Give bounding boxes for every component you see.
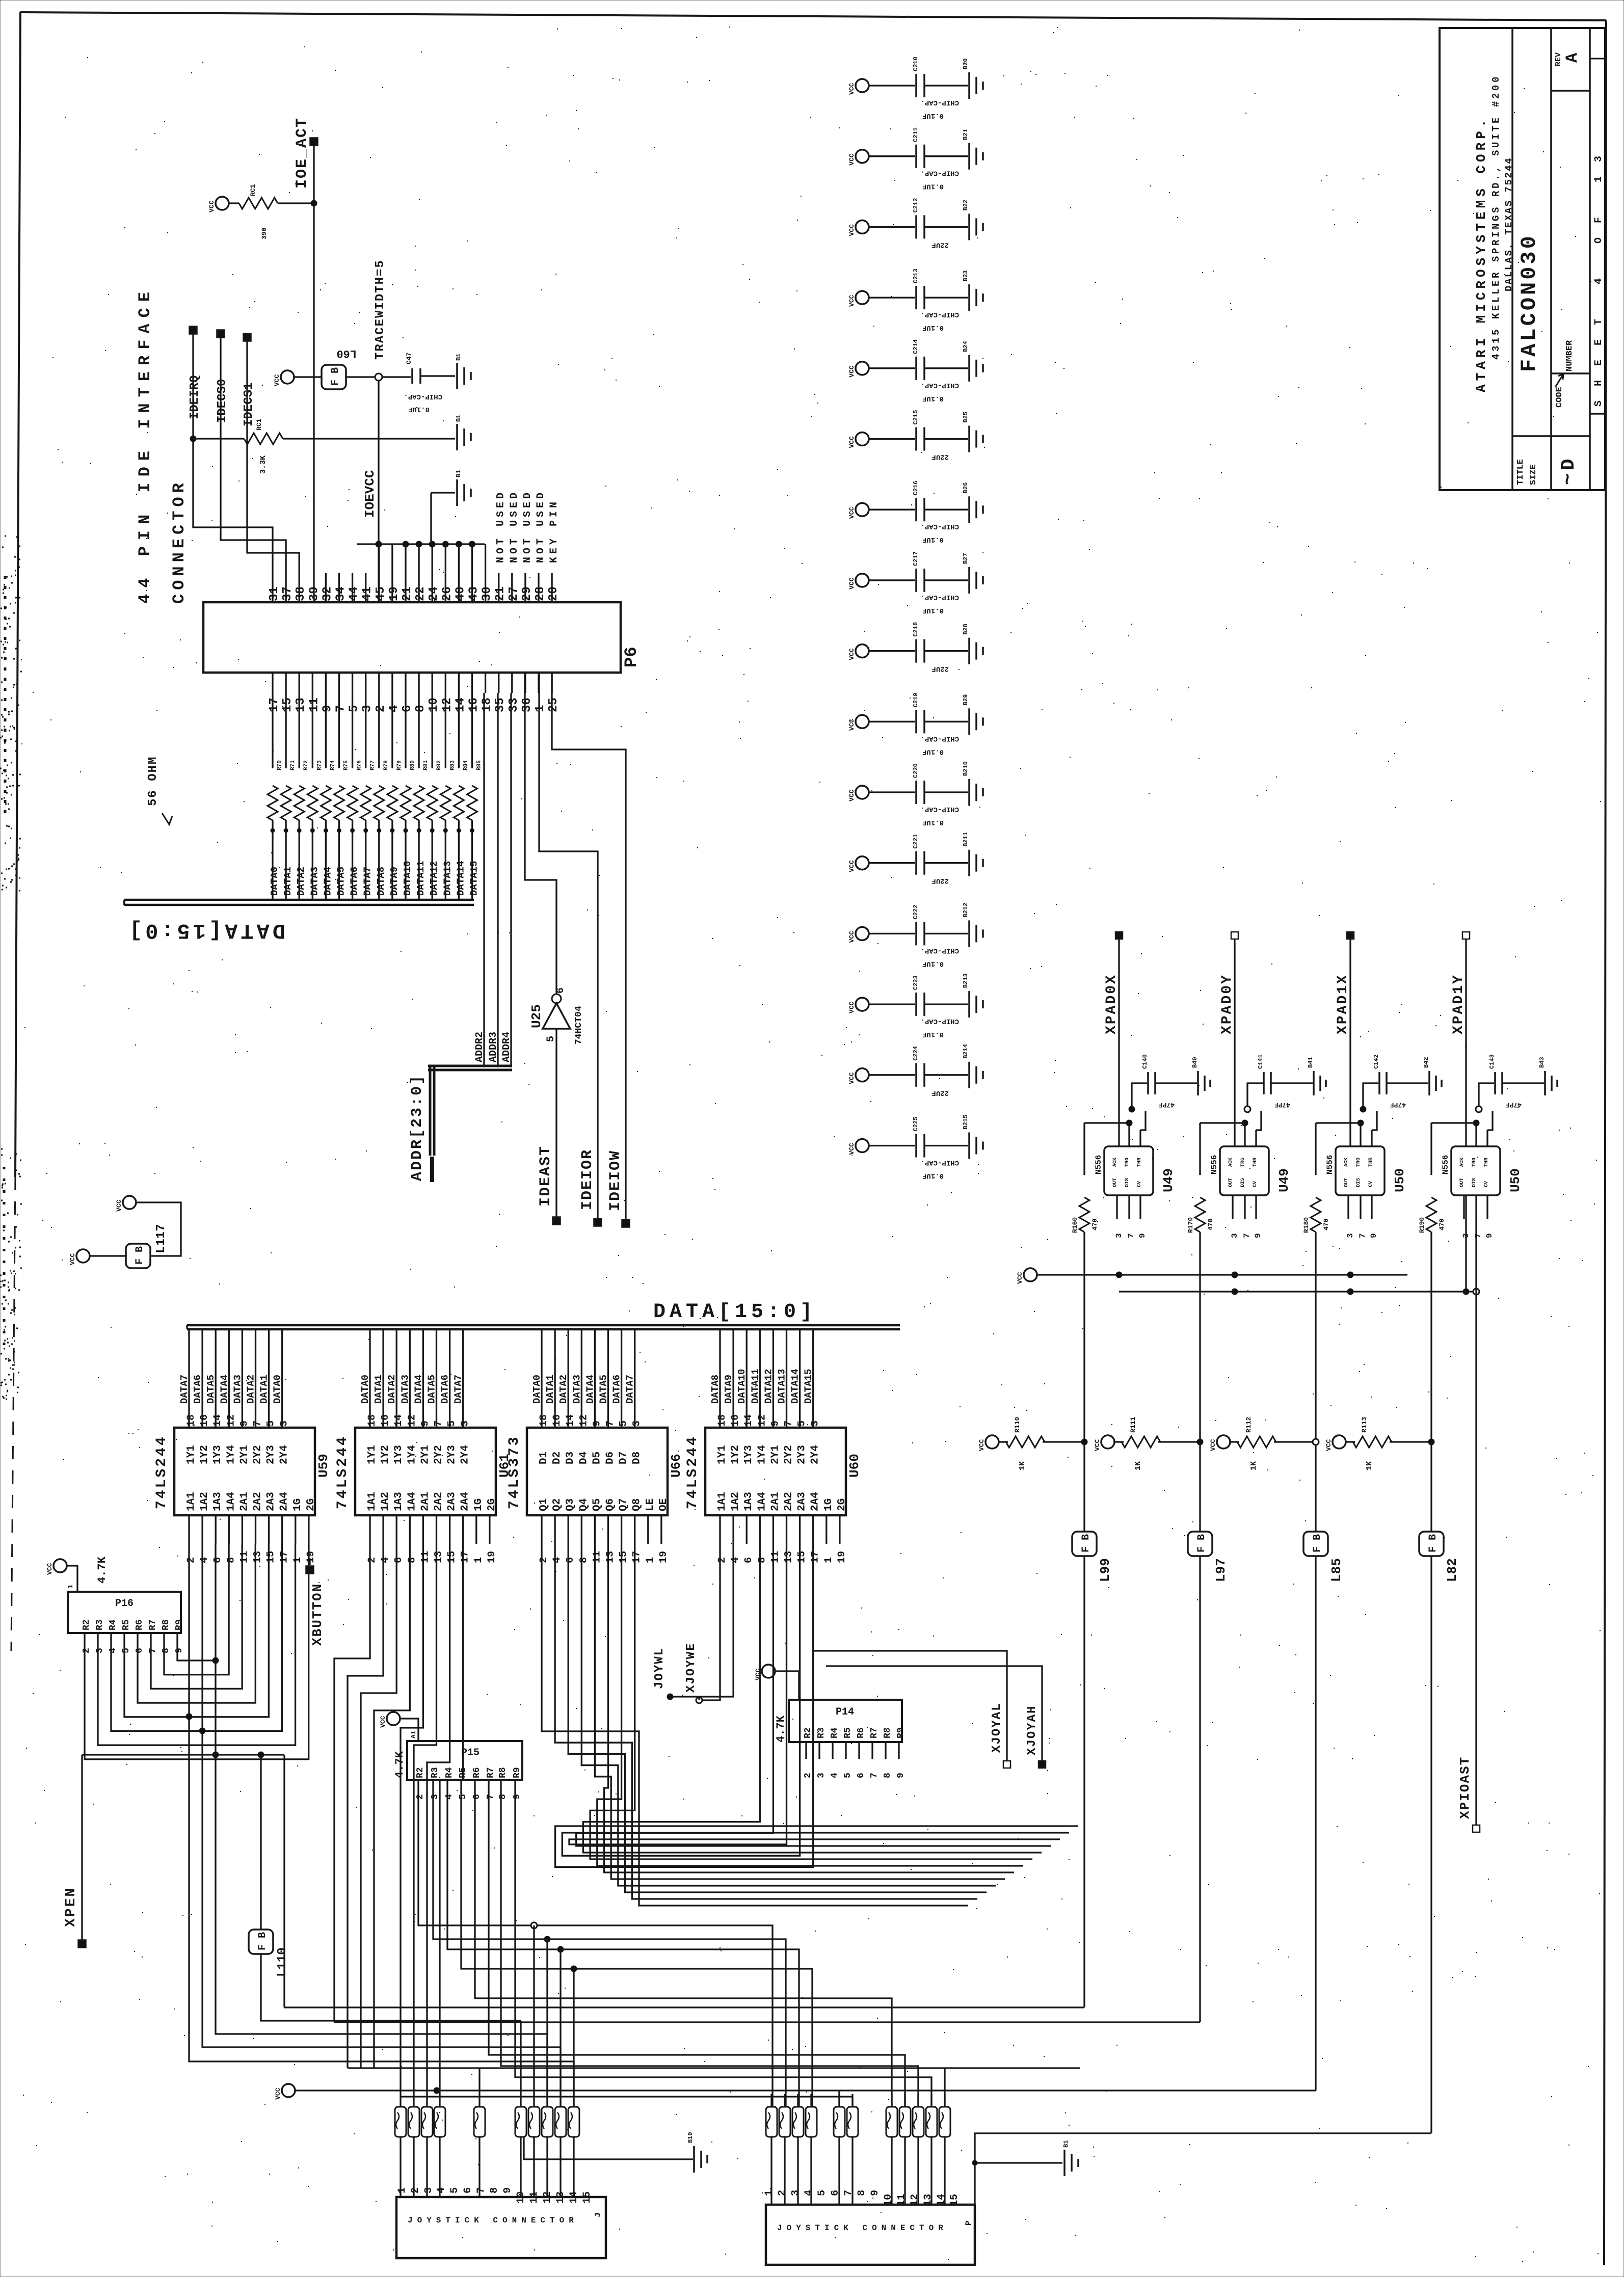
svg-text:B25: B25 [962,412,969,423]
svg-text:Q1: Q1 [538,1498,550,1511]
svg-text:R170: R170 [1187,1217,1194,1233]
svg-text:XPAD1X: XPAD1X [1335,974,1351,1034]
svg-text:RC1: RC1 [255,418,263,431]
svg-text:DATA4: DATA4 [584,1375,596,1404]
svg-text:12: 12 [225,1414,237,1427]
svg-text:JOYSTICK CONNECTOR: JOYSTICK CONNECTOR [777,2224,948,2233]
svg-text:VCC: VCC [848,1143,856,1155]
svg-text:C143: C143 [1488,1054,1496,1069]
svg-text:NUMBER: NUMBER [1565,340,1575,371]
svg-text:11: 11 [307,698,321,712]
svg-text:15: 15 [265,1551,277,1563]
svg-text:1: 1 [763,2190,775,2196]
svg-text:2Y4: 2Y4 [279,1445,290,1464]
svg-text:F B: F B [1080,1534,1092,1552]
svg-text:0.1UF: 0.1UF [408,405,430,413]
svg-text:R2: R2 [415,1767,425,1778]
svg-text:B23: B23 [962,270,969,281]
svg-text:DATA6: DATA6 [192,1375,203,1404]
svg-text:21: 21 [401,586,414,601]
svg-text:DATA3: DATA3 [232,1375,243,1404]
svg-text:A1: A1 [410,1730,417,1738]
svg-text:2A3: 2A3 [796,1492,808,1511]
svg-text:4: 4 [380,1557,391,1563]
svg-text:B215: B215 [962,1115,969,1130]
svg-text:R6: R6 [135,1619,145,1630]
svg-text:P15: P15 [461,1747,480,1759]
svg-text:45: 45 [374,586,388,601]
svg-text:1G: 1G [823,1498,835,1511]
svg-text:OUT: OUT [1228,1178,1234,1187]
svg-text:R7: R7 [869,1727,880,1738]
svg-text:16: 16 [380,1414,391,1427]
svg-text:IOE_ACT: IOE_ACT [294,117,311,189]
svg-text:14: 14 [565,1414,576,1427]
svg-text:CHIP-CAP.: CHIP-CAP. [920,522,959,530]
svg-text:R5: R5 [843,1727,853,1738]
svg-text:5: 5 [796,1421,808,1427]
svg-text:3: 3 [279,1421,290,1427]
svg-text:1G: 1G [292,1498,304,1511]
svg-text:17: 17 [268,698,281,712]
svg-text:32: 32 [321,586,334,601]
svg-text:3: 3 [1114,1233,1124,1238]
svg-text:Q5: Q5 [591,1498,603,1511]
svg-text:VCC: VCC [848,931,856,943]
svg-text:2Y4: 2Y4 [810,1445,821,1464]
svg-text:L110: L110 [276,1947,289,1977]
svg-text:2Y3: 2Y3 [796,1445,808,1464]
svg-text:28: 28 [534,586,547,601]
svg-text:1Y2: 1Y2 [199,1445,210,1464]
svg-text:B10: B10 [687,2132,694,2143]
svg-text:8: 8 [756,1557,768,1563]
svg-text:3: 3 [95,1648,105,1653]
svg-text:1Y1: 1Y1 [185,1445,197,1464]
svg-text:R9: R9 [896,1727,906,1738]
svg-text:XPAD0X: XPAD0X [1104,974,1120,1034]
svg-text:5: 5 [816,2190,828,2196]
svg-text:4: 4 [108,1648,118,1653]
svg-text:C140: C140 [1141,1054,1149,1069]
svg-text:XJOYAH: XJOYAH [1025,1705,1039,1755]
svg-text:XJOYAL: XJOYAL [990,1703,1004,1753]
svg-text:DATA0: DATA0 [272,1375,283,1404]
svg-text:2: 2 [82,1648,92,1653]
svg-text:DATA4: DATA4 [219,1375,230,1404]
svg-text:9: 9 [1485,1233,1494,1238]
svg-text:F B: F B [134,1246,146,1265]
svg-text:2A1: 2A1 [419,1492,431,1511]
svg-text:B213: B213 [962,973,969,988]
svg-text:7: 7 [475,2187,487,2193]
svg-text:1K: 1K [1365,1461,1374,1470]
svg-text:1A4: 1A4 [406,1492,418,1511]
svg-text:VCC: VCC [848,436,856,448]
svg-text:CHIP-CAP.: CHIP-CAP. [920,1017,959,1025]
svg-text:VCC: VCC [379,1716,387,1728]
svg-text:D4: D4 [578,1452,590,1464]
svg-text:7: 7 [334,705,348,712]
svg-text:43: 43 [467,586,481,601]
svg-text:CHIP-CAP.: CHIP-CAP. [920,593,959,601]
svg-text:VCC: VCC [848,719,856,731]
svg-text:2A4: 2A4 [460,1492,471,1511]
svg-text:R3: R3 [95,1619,105,1630]
svg-text:XJOYWE: XJOYWE [684,1643,698,1693]
svg-text:DATA11: DATA11 [750,1369,761,1404]
svg-text:11: 11 [238,1551,250,1563]
svg-text:2: 2 [803,1773,813,1778]
svg-text:470: 470 [1438,1218,1446,1230]
svg-text:0.1UF: 0.1UF [922,747,944,756]
svg-text:2: 2 [538,1557,550,1563]
svg-text:7: 7 [869,1773,880,1778]
svg-text:RC1: RC1 [249,184,257,196]
svg-text:R4: R4 [108,1619,118,1630]
svg-text:0.1UF: 0.1UF [922,1030,944,1038]
svg-text:DATA1: DATA1 [373,1375,384,1404]
svg-text:DATA7: DATA7 [453,1375,464,1404]
svg-text:47PF: 47PF [1159,1101,1175,1109]
svg-text:THR: THR [1368,1158,1374,1167]
svg-text:1A1: 1A1 [716,1492,728,1511]
svg-text:OUT: OUT [1344,1178,1349,1187]
svg-text:34: 34 [334,586,348,601]
svg-text:DATA4: DATA4 [413,1375,424,1404]
svg-text:2A2: 2A2 [783,1492,795,1511]
svg-text:CHIP-CAP.: CHIP-CAP. [920,946,959,954]
svg-text:22UF: 22UF [931,1089,949,1097]
svg-text:19: 19 [836,1551,848,1563]
svg-text:CV: CV [1368,1181,1374,1187]
svg-text:D7: D7 [618,1452,630,1464]
svg-text:VCC: VCC [1325,1439,1333,1451]
svg-text:6: 6 [856,1773,866,1778]
svg-text:19: 19 [658,1551,670,1563]
svg-text:3: 3 [361,705,375,712]
svg-text:TRG: TRG [1240,1158,1246,1167]
svg-text:SIZE: SIZE [1529,464,1538,485]
svg-text:N556: N556 [1441,1155,1450,1174]
svg-text:DATA2: DATA2 [296,867,307,896]
svg-text:2: 2 [185,1557,197,1563]
svg-text:2Y1: 2Y1 [769,1445,781,1464]
svg-text:A: A [1563,52,1582,63]
svg-text:9: 9 [1369,1233,1378,1238]
svg-text:19: 19 [305,1551,317,1563]
svg-text:12: 12 [756,1414,768,1427]
svg-text:XPEN: XPEN [63,1887,79,1927]
svg-text:R70: R70 [277,760,283,770]
svg-text:37: 37 [281,586,295,601]
svg-text:27: 27 [507,586,521,601]
svg-text:14: 14 [212,1414,224,1427]
svg-text:B211: B211 [962,832,969,847]
svg-text:D3: D3 [565,1452,576,1464]
svg-text:DATA3: DATA3 [571,1375,582,1404]
svg-text:B28: B28 [962,624,969,635]
svg-text:33: 33 [507,698,521,712]
svg-text:13: 13 [433,1551,445,1563]
svg-text:DATA0: DATA0 [269,867,280,896]
svg-text:17: 17 [810,1551,821,1563]
svg-text:2G: 2G [305,1498,317,1511]
svg-text:31: 31 [268,586,281,601]
svg-text:0.1UF: 0.1UF [922,535,944,544]
svg-text:B214: B214 [962,1044,969,1059]
svg-text:R113: R113 [1361,1417,1368,1433]
svg-text:1A2: 1A2 [730,1492,741,1511]
svg-text:39: 39 [307,586,321,601]
svg-text:2: 2 [374,705,388,712]
svg-text:7: 7 [605,1421,617,1427]
svg-text:4: 4 [803,2190,815,2196]
svg-text:6: 6 [212,1557,224,1563]
svg-text:R8: R8 [883,1727,893,1738]
svg-text:U50: U50 [1508,1168,1523,1192]
svg-text:DATA3: DATA3 [309,867,320,896]
svg-text:8: 8 [578,1557,590,1563]
svg-text:17: 17 [279,1551,290,1563]
svg-text:B22: B22 [962,200,969,211]
svg-text:2: 2 [415,1794,425,1800]
svg-text:VCC: VCC [848,860,856,872]
svg-text:26: 26 [440,586,454,601]
svg-text:VCC: VCC [754,1668,762,1680]
svg-text:R9: R9 [174,1619,184,1630]
svg-text:DATA9: DATA9 [389,867,400,896]
svg-text:74LS244: 74LS244 [685,1435,701,1509]
svg-text:3: 3 [631,1421,643,1427]
svg-text:2: 2 [366,1557,378,1563]
svg-text:7: 7 [783,1421,795,1427]
svg-text:18: 18 [366,1414,378,1427]
svg-text:0.1UF: 0.1UF [922,1172,944,1180]
svg-text:2A3: 2A3 [265,1492,277,1511]
svg-text:4: 4 [830,1773,840,1778]
svg-text:VCC: VCC [115,1199,123,1212]
svg-text:8: 8 [856,2190,868,2196]
svg-text:1: 1 [534,705,547,712]
svg-text:2A4: 2A4 [279,1492,290,1511]
svg-text:1A4: 1A4 [225,1492,237,1511]
svg-text:R3: R3 [430,1767,440,1778]
svg-text:DATA2: DATA2 [246,1375,257,1404]
svg-text:19: 19 [387,586,401,601]
svg-text:DATA2: DATA2 [558,1375,569,1404]
svg-text:12: 12 [578,1414,590,1427]
svg-text:DATA12: DATA12 [763,1369,774,1404]
svg-text:1: 1 [645,1557,656,1563]
svg-text:18: 18 [538,1414,550,1427]
svg-text:DATA1: DATA1 [545,1375,556,1404]
svg-text:VCC: VCC [848,577,856,590]
svg-text:LE: LE [645,1498,656,1511]
svg-text:B29: B29 [962,694,969,706]
svg-text:0.1UF: 0.1UF [922,182,944,191]
svg-text:DATA0: DATA0 [360,1375,371,1404]
svg-text:ACK: ACK [1112,1158,1118,1167]
svg-text:9: 9 [174,1648,184,1653]
svg-text:R6: R6 [856,1727,866,1738]
svg-text:12: 12 [440,698,454,712]
svg-text:0.1UF: 0.1UF [922,324,944,332]
svg-text:NOT USED: NOT USED [495,490,507,563]
svg-text:44 PIN IDE INTERFACE: 44 PIN IDE INTERFACE [136,286,154,604]
svg-text:R84: R84 [463,760,469,770]
svg-text:DATA0: DATA0 [531,1375,543,1404]
svg-text:74LS244: 74LS244 [154,1435,170,1509]
svg-text:F B: F B [330,367,341,386]
svg-text:VCC: VCC [848,224,856,236]
svg-text:1A4: 1A4 [756,1492,768,1511]
svg-text:20: 20 [547,586,561,601]
svg-text:9: 9 [502,2187,514,2193]
svg-text:1Y4: 1Y4 [225,1445,237,1464]
svg-text:N556: N556 [1210,1155,1219,1174]
svg-text:DATA15: DATA15 [803,1369,814,1404]
svg-text:11: 11 [769,1551,781,1563]
svg-text:B24: B24 [962,341,969,352]
svg-text:DATA[15:0]: DATA[15:0] [653,1301,816,1324]
svg-text:DALLAS, TEXAS 75244: DALLAS, TEXAS 75244 [1503,157,1514,291]
svg-text:18: 18 [185,1414,197,1427]
svg-text:35: 35 [494,698,508,712]
svg-text:B40: B40 [1191,1057,1199,1068]
svg-text:2A2: 2A2 [433,1492,445,1511]
svg-text:CHIP-CAP.: CHIP-CAP. [920,805,959,813]
svg-text:DATA8: DATA8 [710,1375,721,1404]
svg-text:C212: C212 [912,198,919,213]
svg-text:P16: P16 [115,1598,134,1610]
svg-text:R112: R112 [1245,1417,1253,1433]
svg-text:IDEIOR: IDEIOR [579,1149,596,1210]
svg-text:CHIP-CAP.: CHIP-CAP. [404,392,442,400]
svg-text:Q8: Q8 [631,1498,643,1511]
svg-text:F B: F B [1196,1534,1208,1552]
svg-text:R190: R190 [1418,1217,1426,1233]
svg-text:CHIP-CAP.: CHIP-CAP. [920,310,959,318]
svg-text:DATA7: DATA7 [179,1375,190,1404]
svg-text:6: 6 [472,1794,482,1800]
svg-text:DATA5: DATA5 [336,867,347,896]
svg-text:0.1UF: 0.1UF [922,394,944,403]
svg-text:9: 9 [769,1421,781,1427]
svg-text:R83: R83 [449,760,456,770]
svg-text:F B: F B [257,1932,269,1950]
svg-text:CHIP-CAP.: CHIP-CAP. [920,1159,959,1167]
svg-text:R180: R180 [1302,1217,1310,1233]
svg-text:VCC: VCC [69,1253,76,1265]
svg-text:CODE: CODE [1555,387,1564,408]
svg-text:1Y3: 1Y3 [393,1445,405,1464]
svg-text:1Y3: 1Y3 [743,1445,755,1464]
svg-text:13: 13 [783,1551,795,1563]
svg-text:R4: R4 [444,1767,455,1778]
svg-text:22UF: 22UF [931,240,949,249]
svg-text:C141: C141 [1257,1054,1264,1069]
svg-text:ACK: ACK [1228,1158,1234,1167]
svg-text:U50: U50 [1392,1168,1407,1192]
svg-text:B26: B26 [962,483,969,494]
svg-text:38: 38 [294,586,308,601]
svg-text:30: 30 [481,586,494,601]
svg-text:DATA11: DATA11 [415,861,427,896]
svg-text:VCC: VCC [848,83,856,95]
svg-text:6: 6 [830,2190,841,2196]
svg-text:7: 7 [486,1794,496,1800]
svg-text:DATA5: DATA5 [598,1375,609,1404]
svg-text:1A1: 1A1 [185,1492,197,1511]
svg-text:DIS: DIS [1125,1178,1130,1187]
svg-text:DATA9: DATA9 [723,1375,734,1404]
svg-text:2Y1: 2Y1 [238,1445,250,1464]
svg-text:C217: C217 [912,551,919,566]
svg-text:4315 KELLER SPRINGS RD., SUITE: 4315 KELLER SPRINGS RD., SUITE #200 [1490,74,1502,360]
svg-text:6: 6 [555,987,567,994]
svg-text:36: 36 [520,698,534,712]
svg-text:15: 15 [796,1551,808,1563]
svg-text:14: 14 [743,1414,755,1427]
svg-text:IDECS1: IDECS1 [242,383,256,426]
svg-text:1K: 1K [1134,1461,1142,1470]
svg-text:CHIP-CAP.: CHIP-CAP. [920,98,959,106]
svg-text:9: 9 [321,705,334,712]
svg-text:REV: REV [1554,52,1563,66]
svg-text:B1: B1 [455,470,462,477]
svg-text:1: 1 [67,1585,75,1589]
svg-text:R80: R80 [410,760,416,770]
svg-text:1Y3: 1Y3 [212,1445,224,1464]
svg-text:3: 3 [1346,1233,1355,1238]
svg-text:ADDR2: ADDR2 [474,1032,486,1062]
svg-text:3: 3 [816,1773,827,1778]
svg-text:C214: C214 [912,339,919,354]
svg-text:DATA14: DATA14 [790,1369,801,1404]
svg-text:470: 470 [1091,1218,1099,1230]
svg-text:4: 4 [551,1557,563,1563]
svg-text:7: 7 [1242,1233,1252,1238]
svg-text:D6: D6 [605,1452,617,1464]
svg-text:L117: L117 [154,1224,168,1253]
svg-text:5: 5 [545,1036,557,1042]
svg-text:390: 390 [260,227,268,239]
svg-text:16: 16 [730,1414,741,1427]
svg-text:1: 1 [823,1557,835,1563]
svg-text:Q6: Q6 [605,1498,617,1511]
svg-text:2A1: 2A1 [769,1492,781,1511]
svg-text:18: 18 [716,1414,728,1427]
svg-text:4: 4 [444,1794,455,1800]
svg-text:DATA13: DATA13 [777,1369,788,1404]
svg-text:1K: 1K [1018,1461,1027,1470]
svg-text:B42: B42 [1423,1057,1430,1068]
svg-text:CV: CV [1253,1181,1258,1187]
svg-text:40: 40 [454,586,467,601]
svg-text:DATA5: DATA5 [205,1375,217,1404]
svg-text:B21: B21 [962,129,969,140]
svg-text:2G: 2G [836,1498,848,1511]
svg-text:R85: R85 [476,760,483,770]
svg-text:2Y3: 2Y3 [446,1445,458,1464]
svg-text:1G: 1G [473,1498,485,1511]
svg-text:2G: 2G [486,1498,498,1511]
svg-text:XBUTTON: XBUTTON [310,1583,325,1646]
svg-text:15: 15 [446,1551,458,1563]
svg-text:D5: D5 [591,1452,603,1464]
svg-text:VCC: VCC [978,1439,986,1451]
